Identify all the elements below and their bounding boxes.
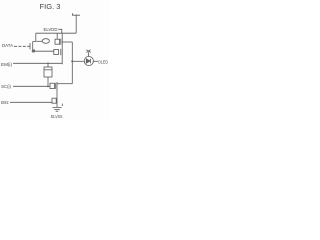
wire to OLED anode — [72, 60, 84, 62]
leader line to oval — [37, 40, 43, 42]
capacitor C box — [44, 67, 52, 77]
transistor T5 gate box — [54, 49, 59, 54]
transistor T4 gate box — [52, 98, 56, 103]
svg-text:EM(i): EM(i) — [1, 62, 12, 68]
wire H_bot from V3 to T3 drain — [57, 83, 72, 85]
power terminal stem wire — [75, 15, 77, 34]
junction dot cap-EM node — [47, 62, 49, 64]
transistor T3 gate bar — [55, 83, 57, 89]
svg-text:ELVSS: ELVSS — [51, 114, 63, 119]
transistor T2 gate lead to rail — [56, 33, 58, 39]
capacitor C box top lead — [47, 63, 49, 67]
svg-text:EM2: EM2 — [1, 100, 9, 106]
transistor T2 gate box — [55, 39, 60, 44]
wire H4 scan line — [13, 85, 50, 87]
svg-text:ELVDD: ELVDD — [44, 27, 58, 33]
leader line from ELVDD label — [58, 29, 62, 33]
transistor T2 drain stub to V3 — [62, 41, 72, 43]
wire DATA leader (dashed) — [14, 45, 30, 47]
tick mark near ground — [61, 104, 63, 106]
wire V2 rail through T2 T5 down to H3 — [61, 33, 63, 64]
svg-text:OLED: OLED — [98, 60, 108, 66]
transistor T3 channel — [56, 82, 58, 93]
ground symbol bars — [53, 107, 62, 111]
reference oval label near T1 — [42, 39, 49, 44]
svg-text:DATA: DATA — [2, 43, 14, 49]
junction dot OLED node — [71, 60, 73, 62]
wire V1 from rail to transistor T1 — [33, 33, 36, 41]
transistor T1 channel — [32, 42, 34, 51]
svg-text:SC(i): SC(i) — [1, 84, 11, 90]
wire H5 to T4 gate — [10, 101, 52, 103]
transistor T2 gate bar — [60, 39, 62, 45]
emission mark above OLED — [86, 50, 90, 57]
wire ELVDD rail — [36, 32, 76, 34]
wire H2 node A to T5 gate — [34, 50, 54, 52]
capacitor C inner plate line — [44, 69, 52, 71]
OLED circle — [84, 56, 93, 65]
transistor T5 gate bar — [60, 49, 62, 55]
OLED diode mark inside — [86, 59, 90, 63]
transistor T1 gate bar — [29, 43, 31, 50]
junction dot node A — [32, 49, 35, 52]
transistor T1 source bend junction — [33, 50, 34, 51]
wire V4 to ground — [56, 93, 58, 108]
wire OLED cathode lead — [93, 60, 98, 62]
capacitor C bottom lead — [47, 77, 49, 86]
wire V3 right vertical — [71, 42, 73, 84]
transistor T3 gate box — [50, 83, 54, 88]
svg-text:FIG. 3: FIG. 3 — [40, 2, 61, 11]
junction dot cap-scan node — [47, 85, 49, 87]
power terminal ELVDD bar — [72, 13, 80, 15]
wire H3 from EM label to V2 — [13, 62, 62, 64]
